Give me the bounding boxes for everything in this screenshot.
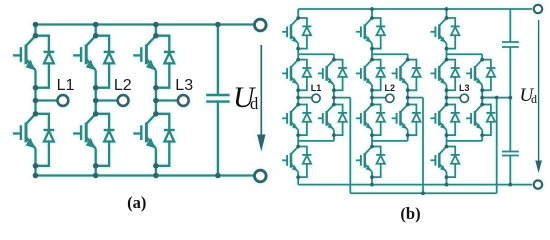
svg-text:L3: L3 (459, 83, 470, 93)
svg-text:(b): (b) (400, 204, 420, 223)
svg-text:L2: L2 (114, 77, 132, 94)
svg-text:L2: L2 (385, 83, 396, 93)
svg-text:L1: L1 (311, 83, 322, 93)
svg-text:d: d (250, 94, 259, 113)
svg-text:d: d (531, 92, 537, 106)
svg-text:L3: L3 (175, 77, 193, 94)
svg-text:L1: L1 (57, 77, 75, 94)
svg-text:(a): (a) (127, 193, 146, 212)
